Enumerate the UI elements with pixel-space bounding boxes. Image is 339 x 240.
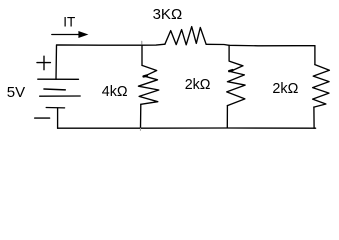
current arrow IT line [52, 34, 80, 36]
resistor R1 3KΩ horizontal zigzag [165, 27, 206, 45]
resistor R2 4kΩ zigzag [138, 65, 158, 104]
wire battery bottom lead [57, 108, 59, 128]
resistor R3 2kΩ middle zigzag [227, 66, 245, 106]
wire right branch drop [314, 46, 316, 65]
svg-text:3KΩ: 3KΩ [153, 6, 183, 23]
svg-text:4kΩ: 4kΩ [102, 84, 128, 100]
node A tick above 4k junction [141, 41, 143, 45]
wire top right from 3K to right corner [206, 44, 315, 46]
resistor R4 2kΩ right zigzag [313, 65, 330, 108]
junction blob middle resistor [229, 70, 232, 71]
wire middle resistor bottom lead [226, 106, 228, 128]
svg-text:5V: 5V [7, 84, 25, 101]
battery V1 plate 3 long [40, 95, 80, 97]
wire bottom return [58, 127, 316, 129]
junction blob 4k resistor [144, 74, 147, 77]
wire 4k resistor bottom lead [140, 104, 142, 128]
wire middle branch drop [229, 45, 243, 66]
minus sign of battery [35, 117, 50, 119]
wire right resistor bottom lead [313, 107, 315, 128]
svg-text:2kΩ: 2kΩ [185, 77, 211, 93]
wire overshoot below 4k bottom junction [139, 128, 141, 130]
current arrow IT head [78, 31, 88, 38]
svg-text:2kΩ: 2kΩ [272, 81, 298, 97]
plus sign of battery [37, 62, 50, 64]
battery V1 plate 1 long [38, 78, 79, 80]
svg-text:IT: IT [63, 14, 75, 29]
wire top from battery to 3K resistor [56, 44, 165, 79]
battery V1 plate 2 short [44, 88, 65, 91]
battery V1 plate 4 short [46, 107, 64, 109]
wire 4k branch drop [141, 45, 143, 65]
